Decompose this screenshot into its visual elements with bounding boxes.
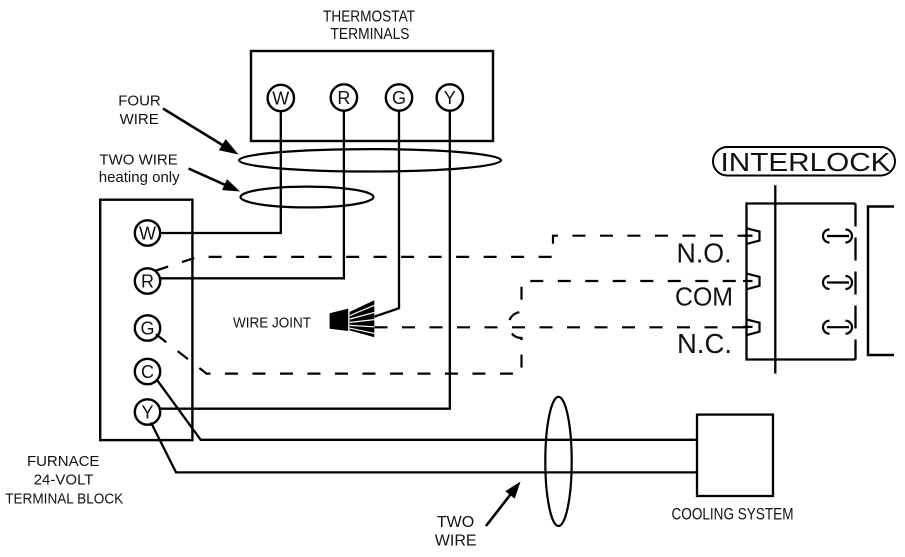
dashed wire G to COM with hop [156,281,745,374]
svg-text:C: C [141,362,154,382]
terminal Y (furnace) [135,399,160,424]
cooling system box [697,415,773,496]
furnace terminal block box [100,200,192,440]
svg-text:G: G [392,88,406,108]
INTERLOCK stadium label [713,147,895,176]
svg-text:FOUR: FOUR [118,93,161,110]
mating connector bracket [868,207,894,356]
svg-text:TERMINAL BLOCK: TERMINAL BLOCK [5,491,123,508]
terminal G (furnace) [135,315,160,340]
svg-text:R: R [337,88,350,108]
svg-text:WIRE: WIRE [120,111,159,128]
dashed wire R to N.O. [156,236,745,271]
terminal Y (thermostat) [437,84,463,110]
svg-text:Y: Y [141,403,153,423]
interlock actuator line [774,185,776,373]
terminal W (thermostat) [268,85,294,111]
wire Y furnace-to-thermostat [160,111,450,409]
receptacle contact 2 [823,276,852,289]
svg-text:INTERLOCK: INTERLOCK [721,147,892,177]
contact N.O. spade [747,228,760,244]
svg-text:TERMINALS: TERMINALS [331,26,410,43]
svg-text:24-VOLT: 24-VOLT [34,472,94,489]
interlock relay box [747,204,856,360]
terminal G (thermostat) [386,84,412,110]
wire joint wire-nut cap [330,309,349,331]
wire joint wire fan [350,300,375,337]
receptacle contact 1 [823,230,852,243]
svg-text:W: W [272,89,289,109]
FOUR WIRE arrow [163,109,224,147]
two-wire bundle ellipse (cooling) [545,397,571,526]
TWO WIRE (cooling) arrow [486,493,512,527]
contact COM spade [747,274,760,290]
terminal W (furnace) [135,220,160,245]
svg-text:W: W [139,224,156,244]
svg-text:THERMOSTAT: THERMOSTAT [323,9,415,26]
two-wire cable bundle ellipse [241,187,374,208]
wire W furnace-to-thermostat [160,111,281,233]
svg-text:WIRE JOINT: WIRE JOINT [233,315,311,332]
terminal R (thermostat) [331,84,357,110]
dashed wire joint to N.C. [375,326,746,328]
svg-text:COM: COM [675,282,733,312]
wire Y to cooling system [151,423,697,473]
svg-text:G: G [140,319,154,339]
svg-text:N.C.: N.C. [677,328,732,359]
contact N.C. spade [747,320,760,336]
terminal R (furnace) [135,268,160,293]
svg-text:N.O.: N.O. [677,238,732,269]
svg-text:TWO: TWO [437,514,474,531]
four-wire cable bundle ellipse [239,149,501,171]
wire G thermostat-to-wire-joint [375,111,400,317]
svg-text:R: R [141,272,154,292]
TWO WIRE arrow [189,169,227,186]
svg-text:heating only: heating only [99,169,180,186]
svg-text:TWO WIRE: TWO WIRE [99,152,177,169]
svg-text:COOLING SYSTEM: COOLING SYSTEM [672,505,794,524]
wire C to cooling system [157,379,698,440]
svg-text:FURNACE: FURNACE [27,453,100,470]
terminal C (furnace) [135,359,160,384]
svg-text:Y: Y [444,88,456,108]
wire R furnace-to-thermostat [160,111,344,279]
thermostat box [251,51,493,141]
receptacle contact 3 [823,321,852,334]
svg-text:WIRE: WIRE [435,532,477,549]
